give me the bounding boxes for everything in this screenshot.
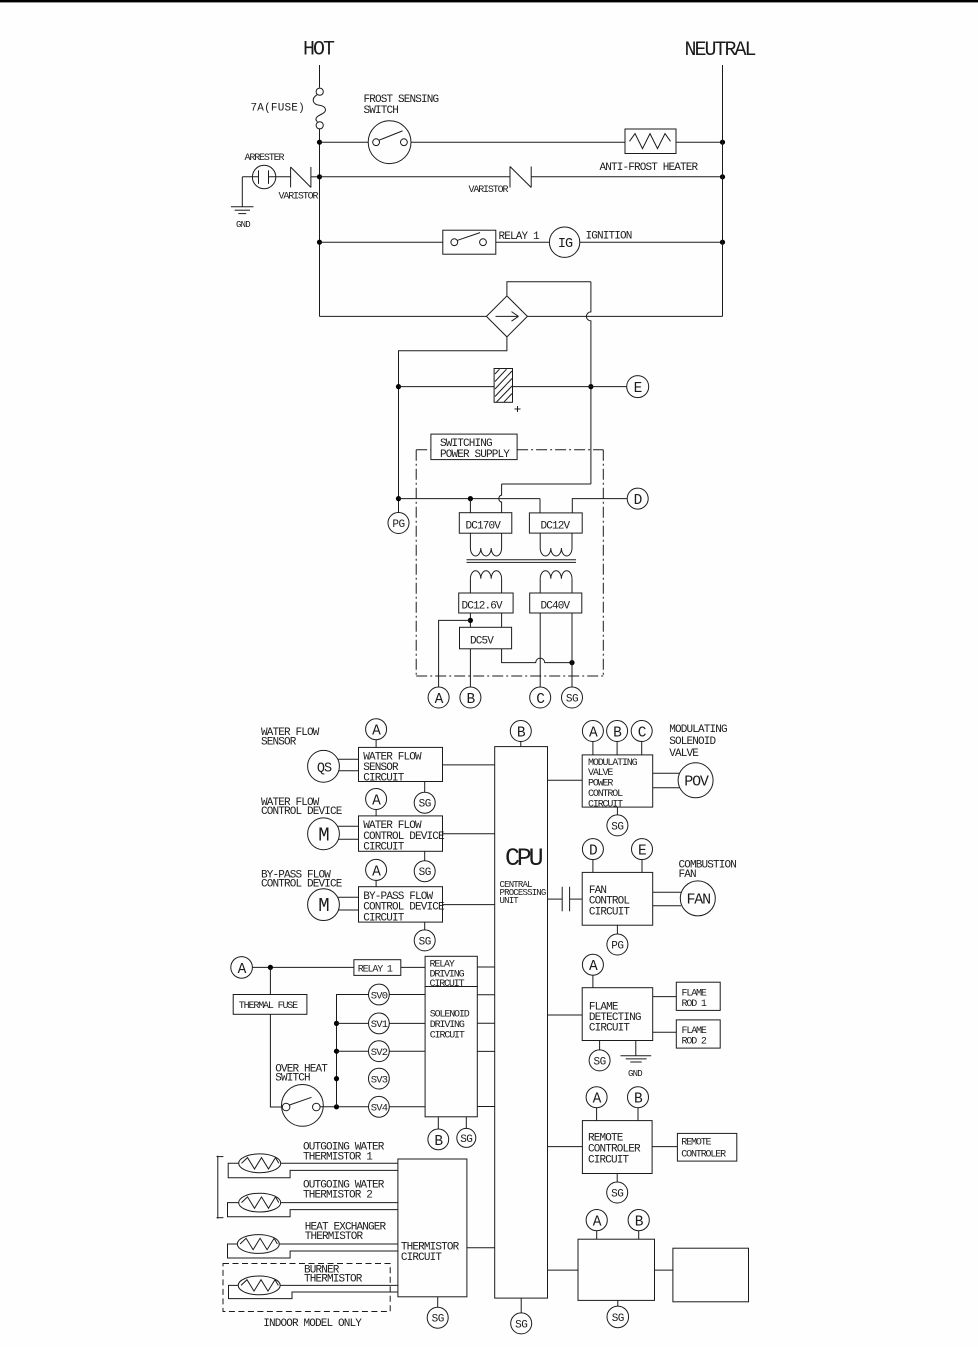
block flame rod 1 [676, 982, 720, 1010]
terminal A bottom [586, 1210, 607, 1231]
svg-text:CONTROL DEVICE: CONTROL DEVICE [261, 879, 343, 891]
wire D-line [399, 498, 541, 500]
svg-text:REMOTE: REMOTE [681, 1137, 711, 1148]
thermistor RT1 [239, 1154, 281, 1173]
node junction left rail cap [396, 384, 401, 389]
svg-text:A: A [372, 864, 381, 880]
svg-text:ROD 1: ROD 1 [682, 999, 707, 1010]
terminal SG [562, 687, 583, 708]
svg-text:C: C [536, 692, 545, 708]
wire solenoid box to SG [465, 1117, 467, 1129]
svg-text:PG: PG [611, 941, 623, 953]
wire E drop [641, 860, 643, 873]
terminal B mod [607, 721, 628, 742]
ground GND arrester [241, 177, 243, 207]
wire SV1 to driver [389, 1022, 425, 1024]
terminal B cpu top [510, 721, 531, 742]
DC40V box [530, 593, 582, 613]
terminal C [530, 687, 551, 708]
wire remote box to external [652, 1146, 677, 1148]
ignitor IG [549, 227, 579, 257]
wire frost switch to heater [411, 141, 625, 143]
wire fan to PG [616, 925, 618, 934]
svg-text:THERMAL FUSE: THERMAL FUSE [239, 1001, 298, 1012]
svg-text:A: A [238, 962, 247, 978]
wire cpu to bottom box [548, 1269, 579, 1271]
svg-text:7A(FUSE): 7A(FUSE) [251, 103, 305, 115]
svg-text:CIRCUIT: CIRCUIT [430, 1031, 465, 1042]
block relay driving circuit [425, 956, 477, 986]
node junction SG rail [569, 660, 574, 665]
svg-text:MODULATING: MODULATING [588, 758, 638, 769]
boundary dash-dot enclosure [416, 449, 431, 451]
terminal SG flame [589, 1050, 610, 1071]
transformer primary coil left [469, 533, 471, 548]
wire wfc to SG [424, 851, 426, 860]
block unlabeled external bottom [673, 1248, 749, 1302]
svg-text:SG: SG [593, 1056, 605, 1068]
svg-text:DC5V: DC5V [470, 636, 494, 648]
wire solenoid box to B [437, 1117, 439, 1129]
wire hot vertical main [319, 129, 321, 317]
wire flame box to rod1 [653, 996, 677, 998]
terminal B remote [628, 1087, 649, 1108]
fuse F1 7A(FUSE) [316, 88, 323, 95]
svg-text:FAN: FAN [679, 869, 697, 881]
node junction row3 [317, 240, 322, 245]
svg-text:FLAME: FLAME [682, 1026, 707, 1037]
svg-text:C: C [638, 726, 647, 742]
svg-text:DC12.6V: DC12.6V [462, 601, 504, 613]
wire thermistor box to cpu [467, 1247, 495, 1249]
wire flame to SG [599, 1041, 601, 1050]
wire A to relay1 box [252, 966, 354, 968]
ground GND flame [635, 1041, 637, 1056]
terminal C mod [631, 721, 652, 742]
wire D branch [572, 499, 627, 513]
block CPU [495, 747, 548, 1299]
relay RELAY 1 contact [443, 230, 496, 254]
node junction cap line [588, 384, 593, 389]
varistor RV1 [290, 167, 292, 187]
wire A branch [439, 620, 471, 687]
wire A drop mod [592, 742, 594, 755]
wire QS to box upper [338, 758, 359, 760]
wire SV0 to driver [389, 994, 425, 996]
svg-text:GND: GND [236, 220, 250, 230]
svg-text:QS: QS [317, 761, 332, 776]
wire A drop remote [596, 1108, 598, 1121]
wire relay1 to driving circuit [401, 966, 425, 968]
terminal PG [388, 513, 409, 534]
wire heater to neutral [676, 141, 723, 143]
wire hot to rectifier [320, 315, 487, 317]
fuse thermal fuse box [233, 995, 307, 1015]
transformer core [467, 559, 577, 561]
svg-text:SV1: SV1 [371, 1019, 388, 1031]
svg-text:ANTI-FROST HEATER: ANTI-FROST HEATER [600, 162, 699, 174]
terminal D fan [582, 839, 603, 860]
wire B drop bottom [638, 1231, 640, 1240]
svg-text:CONTROLER: CONTROLER [681, 1149, 726, 1160]
svg-text:SV3: SV3 [371, 1074, 388, 1086]
wire row3 to relay [320, 241, 443, 243]
wire A drop flame [592, 975, 594, 988]
svg-text:INDOOR MODEL ONLY: INDOOR MODEL ONLY [263, 1318, 362, 1330]
bracket thermistor group [217, 1156, 219, 1219]
wire bus to SV2 [337, 1050, 369, 1052]
wire dc+ horizontal jog [502, 483, 591, 485]
svg-text:CIRCUIT: CIRCUIT [589, 906, 631, 918]
transformer secondary coil right [539, 579, 541, 593]
switching power supply box [431, 434, 517, 460]
terminal PG fan [607, 934, 628, 955]
terminal SG remote [607, 1182, 628, 1203]
svg-text:A: A [589, 726, 598, 742]
svg-text:B: B [634, 1092, 643, 1108]
svg-text:SOLENOID: SOLENOID [669, 736, 716, 748]
wire varistor2 to neutral [531, 176, 722, 178]
svg-text:CIRCUIT: CIRCUIT [401, 1252, 443, 1264]
wire cpu to mod box [548, 779, 583, 781]
wire bottom box to external [655, 1269, 673, 1271]
wire mod to POV lower [653, 787, 680, 789]
DC5V box [460, 627, 512, 649]
svg-text:VALVE: VALVE [669, 748, 699, 760]
wire DC5V right to SG rail with hop [502, 649, 572, 663]
wire DC170V left drop [469, 499, 471, 513]
solenoid terminal SV2 [369, 1041, 390, 1062]
svg-text:POV: POV [684, 773, 709, 790]
resistor anti-frost heater [625, 129, 676, 154]
capacitor cpu-fan coupling [548, 898, 563, 900]
relay coil box RELAY 1 [354, 960, 401, 976]
terminal SG mod [607, 815, 628, 836]
svg-text:VALVE: VALVE [588, 768, 613, 779]
svg-text:THERMISTOR: THERMISTOR [305, 1231, 364, 1243]
svg-text:SG: SG [515, 1319, 527, 1331]
wire sv1 row to cpu [477, 1022, 494, 1024]
svg-text:D: D [589, 844, 598, 860]
wire A drop bottom [596, 1231, 598, 1240]
terminal B [460, 687, 481, 708]
node junction row2 [317, 174, 322, 179]
node junction bus SV4 [334, 1104, 339, 1109]
node junction neutral row1 [720, 140, 725, 145]
block flame detecting circuit [582, 988, 653, 1041]
wire M to box lower [339, 838, 359, 840]
block modulating valve power control circuit [582, 755, 653, 807]
svg-text:M: M [318, 824, 329, 846]
wire B to cpu [520, 742, 522, 747]
svg-text:A: A [593, 1215, 602, 1231]
svg-text:RELAY 1: RELAY 1 [499, 231, 541, 243]
svg-text:RELAY 1: RELAY 1 [358, 965, 393, 976]
wire bus to SV1 [337, 1022, 369, 1024]
wire wfc to cpu [443, 833, 495, 835]
terminal A mod [582, 721, 603, 742]
svg-text:CIRCUIT: CIRCUIT [363, 772, 405, 784]
svg-text:FLAME: FLAME [682, 989, 707, 1000]
wire relay drv to cpu [477, 966, 494, 968]
node junction neutral row2 [720, 174, 725, 179]
svg-text:HOT: HOT [303, 39, 335, 62]
svg-text:A: A [372, 724, 381, 740]
terminal A [428, 687, 449, 708]
DC12.6V box [459, 593, 513, 613]
terminal D [627, 488, 648, 509]
terminal E [627, 376, 649, 398]
motor M water flow [308, 818, 340, 850]
wire row2 to varistor2 [320, 176, 511, 178]
thermistor RT4 [238, 1276, 280, 1295]
svg-text:THERMISTOR 2: THERMISTOR 2 [303, 1190, 372, 1202]
switch over heat [282, 1085, 324, 1127]
svg-text:SOLENOID: SOLENOID [430, 1010, 470, 1021]
wire A to wfc box [375, 810, 377, 816]
wire M to box upper [338, 825, 358, 827]
svg-text:VARISTOR: VARISTOR [469, 185, 509, 196]
wire relay to IG [496, 241, 550, 243]
terminal SG bottom [607, 1306, 629, 1328]
wire bottom box to SG [617, 1300, 619, 1306]
svg-text:E: E [638, 844, 647, 860]
wire dc+ vertical with hop [586, 282, 591, 484]
block by-pass flow control device circuit [359, 887, 443, 922]
solenoid terminal SV1 [369, 1013, 390, 1034]
wire fan to FAN lower [653, 905, 681, 907]
svg-text:M: M [318, 895, 329, 917]
svg-text:CONTROL DEVICE: CONTROL DEVICE [261, 806, 343, 818]
svg-text:POWER: POWER [588, 779, 613, 790]
rectifier bridge diamond [486, 296, 527, 337]
capacitor C1 filter [399, 386, 495, 388]
svg-text:THERMISTOR: THERMISTOR [304, 1274, 363, 1286]
wire rectifier top loop [507, 282, 591, 296]
block remote controler circuit [582, 1121, 652, 1174]
svg-text:IG: IG [558, 237, 573, 252]
terminal SG thermistor [427, 1307, 448, 1328]
block unlabeled circuit bottom [578, 1239, 655, 1300]
svg-text:THERMISTOR 1: THERMISTOR 1 [303, 1151, 373, 1163]
svg-text:DRIVING: DRIVING [430, 1020, 465, 1031]
wire SV4 to driver [389, 1106, 425, 1108]
wire thermal fuse drop [269, 967, 271, 994]
thermistor RT3 [237, 1235, 279, 1254]
wire B drop mod [616, 742, 618, 755]
svg-text:E: E [634, 381, 643, 397]
wire C lead [539, 613, 541, 687]
wire A to wfs box [375, 740, 377, 748]
transformer primary coil right [539, 533, 541, 548]
terminal SG cpu bottom [511, 1313, 532, 1334]
wire mod to POV upper [653, 772, 680, 774]
wire M bp to box lower [339, 909, 359, 911]
wire DC12V left drop [539, 499, 541, 513]
terminal A remote [586, 1087, 607, 1108]
svg-text:SG: SG [566, 694, 578, 706]
thermistor RT2 [239, 1193, 281, 1212]
svg-text:DC170V: DC170V [466, 521, 502, 533]
wire flame box to rod2 [653, 1031, 677, 1033]
svg-text:POWER SUPPLY: POWER SUPPLY [440, 449, 510, 461]
wire DC12.6V to DC5V left [469, 613, 471, 627]
fan motor FAN [680, 881, 715, 916]
valve POV [678, 763, 713, 798]
wire HOT lead [319, 65, 321, 88]
terminal SG solenoid [457, 1128, 476, 1147]
top scan bar [0, 0, 978, 2]
node junction A tap [468, 618, 473, 623]
wire B drop remote [637, 1108, 639, 1121]
terminal A bp [366, 859, 387, 880]
node junction left rail D-line [396, 496, 401, 501]
svg-text:SV2: SV2 [371, 1047, 388, 1059]
svg-text:B: B [613, 726, 622, 742]
block solenoid driving circuit [425, 987, 477, 1117]
svg-text:ARRESTER: ARRESTER [245, 153, 285, 164]
svg-text:B: B [434, 1134, 443, 1150]
svg-text:SG: SG [611, 821, 623, 833]
wire D drop [592, 860, 594, 873]
wire neutral vertical [722, 65, 724, 316]
svg-text:FAN: FAN [686, 891, 710, 908]
svg-text:B: B [466, 692, 475, 708]
transformer secondary coil left [469, 579, 471, 593]
svg-text:B: B [635, 1215, 644, 1231]
node junction bus SV2 [334, 1049, 339, 1054]
svg-text:NEUTRAL: NEUTRAL [685, 39, 756, 62]
wire row1 to frost switch [320, 141, 369, 143]
svg-text:SWITCH: SWITCH [364, 105, 399, 117]
svg-text:SV0: SV0 [371, 990, 388, 1002]
sensor QS [308, 750, 340, 782]
transformer T1 DC12V winding box [529, 513, 582, 533]
wire IG to neutral [580, 241, 723, 243]
svg-text:D: D [634, 493, 643, 509]
solenoid terminal SV0 [369, 984, 390, 1005]
svg-text:SV4: SV4 [371, 1103, 388, 1115]
terminal SG wfs [414, 792, 435, 813]
wire cpu to flame box [548, 1014, 583, 1016]
wire sv4 row to cpu [477, 1106, 494, 1108]
wire wfs to cpu [443, 764, 495, 766]
wire B lead [469, 649, 471, 687]
wire remote to SG [616, 1174, 618, 1183]
varistor RV2 [509, 167, 511, 188]
svg-text:PG: PG [392, 519, 404, 531]
terminal SG wfc [414, 861, 435, 882]
block flame rod 2 [676, 1020, 720, 1048]
wire SV bus vertical [337, 995, 369, 1107]
terminal A wfc [366, 789, 387, 810]
svg-text:A: A [372, 794, 381, 810]
svg-text:SG: SG [460, 1134, 472, 1146]
solenoid terminal SV4 [369, 1096, 390, 1117]
svg-text:ROD 2: ROD 2 [682, 1037, 707, 1048]
node junction bus SV3 [334, 1076, 339, 1081]
wire bp to SG [424, 922, 426, 930]
wire DC12.6V to DC5V right [501, 613, 503, 627]
switch S1 frost sensing [368, 121, 411, 164]
wire bp to cpu [443, 904, 495, 906]
terminal A relay rail [231, 957, 253, 979]
block fan control circuit [582, 872, 653, 925]
wire M bp to box upper [338, 896, 358, 898]
transformer T1 DC170V winding box [459, 513, 512, 534]
wire mod to SG [616, 807, 618, 815]
wire SG lead [571, 613, 573, 687]
wire fan to FAN upper [653, 891, 681, 893]
svg-text:SG: SG [419, 867, 431, 879]
svg-text:CIRCUIT: CIRCUIT [363, 912, 405, 924]
svg-text:GND: GND [628, 1069, 642, 1079]
svg-text:SG: SG [419, 936, 431, 948]
wire rectifier bottom to left rail [399, 337, 507, 512]
terminal B solenoid [428, 1129, 449, 1150]
node junction thermal fuse tap [268, 965, 273, 970]
boundary indoor model only dashed [223, 1264, 390, 1312]
wire neutral to rectifier [527, 315, 722, 317]
wire thermistor to SG [437, 1297, 439, 1307]
svg-text:IGNITION: IGNITION [586, 231, 632, 243]
svg-text:B: B [517, 726, 526, 742]
wire wfs to SG [424, 782, 426, 793]
terminal A wfs [366, 719, 387, 740]
svg-text:A: A [435, 692, 444, 708]
svg-text:SENSOR: SENSOR [261, 737, 297, 749]
node junction neutral row3 [720, 240, 725, 245]
block thermistor circuit [398, 1159, 467, 1297]
wire into DC170V right with hop [499, 484, 502, 513]
svg-text:MODULATING: MODULATING [669, 724, 727, 736]
block water flow sensor circuit [359, 747, 443, 781]
wire C drop mod [641, 742, 643, 755]
wire SV2 to driver [389, 1050, 425, 1052]
svg-text:VARISTOR: VARISTOR [279, 192, 319, 203]
wire sv0 row to cpu [477, 994, 494, 996]
svg-text:SG: SG [432, 1314, 444, 1326]
svg-text:CPU: CPU [505, 844, 543, 873]
solenoid terminal SV3 [369, 1068, 390, 1089]
node junction row1 [317, 140, 322, 145]
wire sv2 row to cpu [477, 1050, 494, 1052]
node junction bus SV1 [334, 1021, 339, 1026]
svg-text:DC12V: DC12V [541, 521, 571, 533]
wire switch to SV4 [320, 1106, 368, 1108]
wire cpu bottom SG lead [520, 1298, 522, 1313]
svg-text:SG: SG [611, 1189, 623, 1201]
svg-text:SWITCH: SWITCH [275, 1073, 310, 1085]
motor M by-pass [308, 889, 340, 921]
terminal A flame [582, 954, 603, 975]
wire varistor to main [311, 176, 320, 178]
svg-text:A: A [589, 959, 598, 975]
wire QS to box lower [339, 770, 359, 772]
svg-text:A: A [593, 1092, 602, 1108]
wire thermal fuse to over heat switch [270, 1014, 282, 1107]
terminal B bottom [628, 1210, 649, 1231]
node junction DC170V left [468, 496, 473, 501]
svg-text:SG: SG [419, 799, 431, 811]
svg-text:DC40V: DC40V [541, 601, 571, 613]
svg-text:SG: SG [612, 1313, 624, 1325]
svg-text:UNIT: UNIT [500, 896, 520, 906]
block remote controler external [677, 1133, 736, 1161]
wire A to bp box [375, 880, 377, 886]
svg-text:CONTROL: CONTROL [588, 789, 623, 800]
block water flow control device circuit [359, 816, 443, 851]
